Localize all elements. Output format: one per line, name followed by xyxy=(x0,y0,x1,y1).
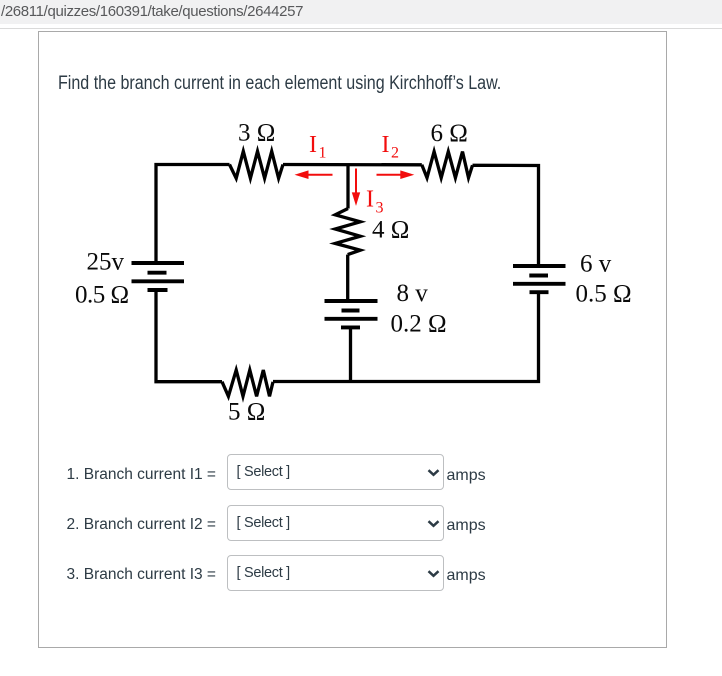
svg-text:8 v: 8 v xyxy=(397,280,429,307)
svg-text:1: 1 xyxy=(319,145,327,162)
svg-text:I: I xyxy=(366,187,374,213)
svg-text:3 Ω: 3 Ω xyxy=(238,120,275,147)
svg-text:25v: 25v xyxy=(87,249,125,276)
svg-text:I: I xyxy=(382,132,390,158)
svg-text:3: 3 xyxy=(376,200,384,217)
svg-text:4 Ω: 4 Ω xyxy=(372,217,409,244)
svg-text:5 Ω: 5 Ω xyxy=(228,399,265,426)
svg-text:2: 2 xyxy=(391,145,399,162)
svg-text:I: I xyxy=(309,132,317,158)
svg-text:0.2 Ω: 0.2 Ω xyxy=(391,311,447,338)
svg-text:0.5 Ω: 0.5 Ω xyxy=(75,281,129,308)
svg-text:6 Ω: 6 Ω xyxy=(431,120,468,147)
svg-text:6 v: 6 v xyxy=(580,251,612,278)
svg-text:0.5 Ω: 0.5 Ω xyxy=(576,281,632,308)
